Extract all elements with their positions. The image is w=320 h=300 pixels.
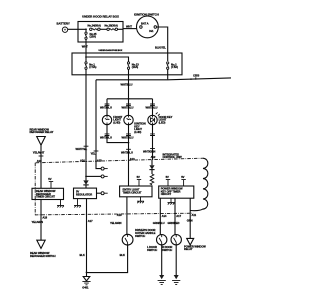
node junction at fuse 25 tap <box>85 28 87 30</box>
svg-text:A14: A14 <box>162 214 167 218</box>
wire fuse No.28 to box edge <box>118 28 124 30</box>
svg-text:WHT/BLU: WHT/BLU <box>146 106 158 110</box>
svg-text:BAT A: BAT A <box>141 22 149 26</box>
svg-text:(7.5A): (7.5A) <box>89 65 96 69</box>
connector ticks <box>126 134 131 136</box>
wire internal bus to fuse No.13 <box>86 57 129 62</box>
wire ICU internal to entry light box <box>128 160 130 186</box>
svg-text:UNDER-DASH FUSE BOX: UNDER-DASH FUSE BOX <box>99 49 123 52</box>
rear window defogger switch arrow <box>37 240 45 248</box>
5V supply tick timer <box>48 177 53 188</box>
ground left door switch <box>158 275 166 284</box>
connector ticks front light <box>105 104 110 106</box>
wire left door switch to ground <box>161 245 163 275</box>
wire BLK door handle switch to ground bus <box>87 245 128 273</box>
svg-text:REGULATOR: REGULATOR <box>76 193 92 197</box>
integrated control unit bottom border <box>35 213 194 215</box>
svg-text:A17: A17 <box>176 214 181 218</box>
terminal circle mid <box>101 175 104 178</box>
wire ICU internal to diode <box>85 163 87 181</box>
wire bulb top bus <box>107 98 153 100</box>
svg-text:BATTERY: BATTERY <box>57 22 70 26</box>
svg-text:C553: C553 <box>193 74 200 78</box>
wire between fuses <box>100 28 107 30</box>
ground below key off timer box <box>168 198 175 204</box>
svg-text:YEL/GRN: YEL/GRN <box>110 221 122 225</box>
connector tick <box>126 148 131 150</box>
svg-text:A19: A19 <box>117 213 122 217</box>
wire key off timer to left door switch <box>159 198 161 234</box>
svg-text:(15A): (15A) <box>90 35 97 39</box>
connector tick <box>150 148 155 150</box>
wire YEL/WHT defogger relay to ICU A10 <box>40 145 42 163</box>
ground below defogger timer box <box>57 200 64 208</box>
wire ICU internal defogger <box>40 163 42 188</box>
wire defogger switch lead <box>40 200 42 241</box>
wire bus below fuse box to right edge <box>96 78 231 80</box>
svg-text:(10A): (10A) <box>132 65 139 69</box>
connector tick <box>84 145 89 147</box>
svg-text:WHT/BLU: WHT/BLU <box>100 136 112 140</box>
ground right door switch <box>172 275 180 284</box>
connector ticks door key light <box>150 104 155 106</box>
svg-text:A13: A13 <box>130 157 135 161</box>
wire WHT relay box down to fuse box <box>85 42 87 57</box>
ground G401 <box>82 272 90 289</box>
wire YEL down-left branch <box>95 80 97 162</box>
svg-text:BLK: BLK <box>120 253 125 257</box>
fuse No.28 <box>107 28 118 30</box>
svg-text:DEFOGGER RELAY: DEFOGGER RELAY <box>30 130 54 134</box>
svg-text:A16: A16 <box>80 159 85 163</box>
ground below regulator <box>74 199 81 208</box>
wire battery to under-hood relay box <box>68 28 86 30</box>
wire ICU internal 5V node <box>96 162 101 169</box>
svg-text:TIMER CIRCUIT: TIMER CIRCUIT <box>123 191 142 195</box>
power window key off timer circuit box <box>159 186 194 198</box>
connector ticks ignition key light <box>126 104 131 106</box>
svg-text:BLK: BLK <box>80 253 85 257</box>
wire front light to ignition key light column <box>107 125 129 143</box>
svg-text:SWITCH: SWITCH <box>135 234 145 238</box>
svg-text:WHT/YEL: WHT/YEL <box>76 147 88 151</box>
node junction above fuse No.1 <box>85 56 87 58</box>
svg-text:WHT/BLU: WHT/BLU <box>100 106 112 110</box>
wire key off timer to right door switch <box>174 198 176 234</box>
under-hood relay box <box>78 22 123 43</box>
svg-text:5V: 5V <box>181 175 184 179</box>
wire WHT/YEL fuse No.1 down to ICU <box>85 75 87 163</box>
connector tick <box>94 150 99 152</box>
power window relay arrow <box>187 238 194 245</box>
connector tick <box>39 155 44 157</box>
svg-text:GRN/BLU: GRN/BLU <box>153 221 165 225</box>
wire WHT relay box to ignition switch <box>123 28 136 30</box>
integrated control unit top border <box>36 158 203 163</box>
under-dash fuse box <box>72 53 182 75</box>
node junction right bus <box>190 78 192 80</box>
fuse No.24 <box>90 28 101 30</box>
node junction below ignition key light <box>128 142 130 144</box>
wire right door switch to ground <box>175 245 177 275</box>
LED door key light <box>148 112 160 124</box>
wire ignition key light branch <box>128 99 130 116</box>
wire door key light down to ICU A12 <box>152 125 154 160</box>
wire ignition key light down to ICU A13 <box>128 125 130 161</box>
svg-text:WHT/BLU: WHT/BLU <box>122 136 134 140</box>
svg-text:A12: A12 <box>151 155 156 159</box>
wire key off timer to power window relay <box>189 198 191 238</box>
svg-text:BLK/YEL: BLK/YEL <box>155 45 166 49</box>
wire regulator BLK down <box>86 199 88 273</box>
wire WHT/BLU fuse No.13 down to bulb bus <box>128 80 130 99</box>
svg-text:5V: 5V <box>166 175 169 179</box>
terminal circle upper <box>101 167 104 170</box>
5V supply tick key off timer box left <box>166 175 171 186</box>
svg-text:A18: A18 <box>42 215 47 219</box>
connector ticks <box>150 134 155 136</box>
resistor R1 <box>150 170 154 187</box>
ignition switch <box>137 16 159 38</box>
wire to terminal circle mid <box>86 175 101 177</box>
wire entry light box to door handle switch <box>126 197 128 234</box>
5V supply tick key off timer box right <box>181 175 186 186</box>
terminal circle regulator <box>101 192 104 195</box>
svg-text:DEFOGGER SWITCH: DEFOGGER SWITCH <box>30 254 56 258</box>
node bulb bus junction <box>128 98 130 100</box>
svg-text:A17: A17 <box>88 219 93 223</box>
5V regulator box <box>74 188 97 199</box>
svg-text:WHT: WHT <box>126 24 132 28</box>
svg-text:G401: G401 <box>82 286 89 290</box>
svg-text:5V: 5V <box>48 177 51 181</box>
svg-text:YEL/GRN: YEL/GRN <box>32 220 44 224</box>
svg-text:(LHD): (LHD) <box>134 130 141 134</box>
right door switch <box>171 235 181 245</box>
lamp ignition key light <box>124 115 133 124</box>
svg-text:YEL/WHT: YEL/WHT <box>33 151 45 155</box>
svg-text:(7.5A): (7.5A) <box>171 65 178 69</box>
svg-text:A15: A15 <box>97 159 102 163</box>
node diode top junction <box>85 176 87 178</box>
svg-text:CIRCUIT: CIRCUIT <box>161 192 172 196</box>
svg-text:WHT/BLU: WHT/BLU <box>121 150 133 154</box>
svg-text:5V: 5V <box>137 175 140 179</box>
wire door key light branch <box>152 99 154 116</box>
fuse No.25 <box>85 29 87 42</box>
svg-text:IG1: IG1 <box>149 29 154 33</box>
battery B1 <box>62 27 67 32</box>
fuse No.13 <box>127 62 129 80</box>
ground below entry light box <box>137 197 144 203</box>
svg-text:GRN: GRN <box>187 218 193 222</box>
node ground bus junction <box>86 272 88 274</box>
connector tick C553 <box>195 77 197 79</box>
fuse No.1 <box>85 57 87 75</box>
5V supply tick entry light box <box>137 175 142 186</box>
rear window defogger relay arrow <box>37 137 46 146</box>
fuse No.2 <box>167 53 169 79</box>
diode D2 <box>149 160 154 170</box>
driver's door outer handle switch <box>122 234 133 245</box>
svg-text:WHT/BLU: WHT/BLU <box>122 106 134 110</box>
connector ticks <box>105 134 110 136</box>
svg-text:A10: A10 <box>37 159 42 163</box>
lamp front light <box>102 115 111 124</box>
svg-text:YEL: YEL <box>91 152 96 156</box>
svg-text:No.28(30A): No.28(30A) <box>105 23 118 27</box>
integrated control unit left border <box>34 163 36 215</box>
svg-text:SWITCH: SWITCH <box>162 248 172 252</box>
svg-text:(LHD): (LHD) <box>113 120 120 124</box>
svg-text:SWITCH: SWITCH <box>147 248 157 252</box>
integrated control unit coil right border <box>190 158 208 210</box>
wire regulator output <box>97 192 102 194</box>
svg-text:(LED): (LED) <box>159 120 166 124</box>
svg-text:WHT: WHT <box>82 44 88 48</box>
svg-text:A11: A11 <box>192 213 197 217</box>
svg-text:RELAY: RELAY <box>184 247 193 251</box>
left door switch <box>157 235 167 245</box>
svg-text:WHT/GRN: WHT/GRN <box>143 150 155 154</box>
svg-text:UNDER HOOD RELAY BOX: UNDER HOOD RELAY BOX <box>82 15 119 19</box>
wire BLK/YEL ignition to under-dash fuse box <box>157 27 168 53</box>
svg-text:No.24(80A): No.24(80A) <box>88 23 101 27</box>
svg-text:GRN/RED: GRN/RED <box>168 221 180 225</box>
entry light timer circuit box <box>120 186 152 197</box>
svg-text:TIMER CIRCUIT: TIMER CIRCUIT <box>36 195 55 199</box>
rear window defogger timer circuit box <box>32 188 64 199</box>
wire front light branch <box>106 99 108 116</box>
diode D1 <box>83 180 88 188</box>
svg-text:WHT/BLU: WHT/BLU <box>121 82 133 86</box>
